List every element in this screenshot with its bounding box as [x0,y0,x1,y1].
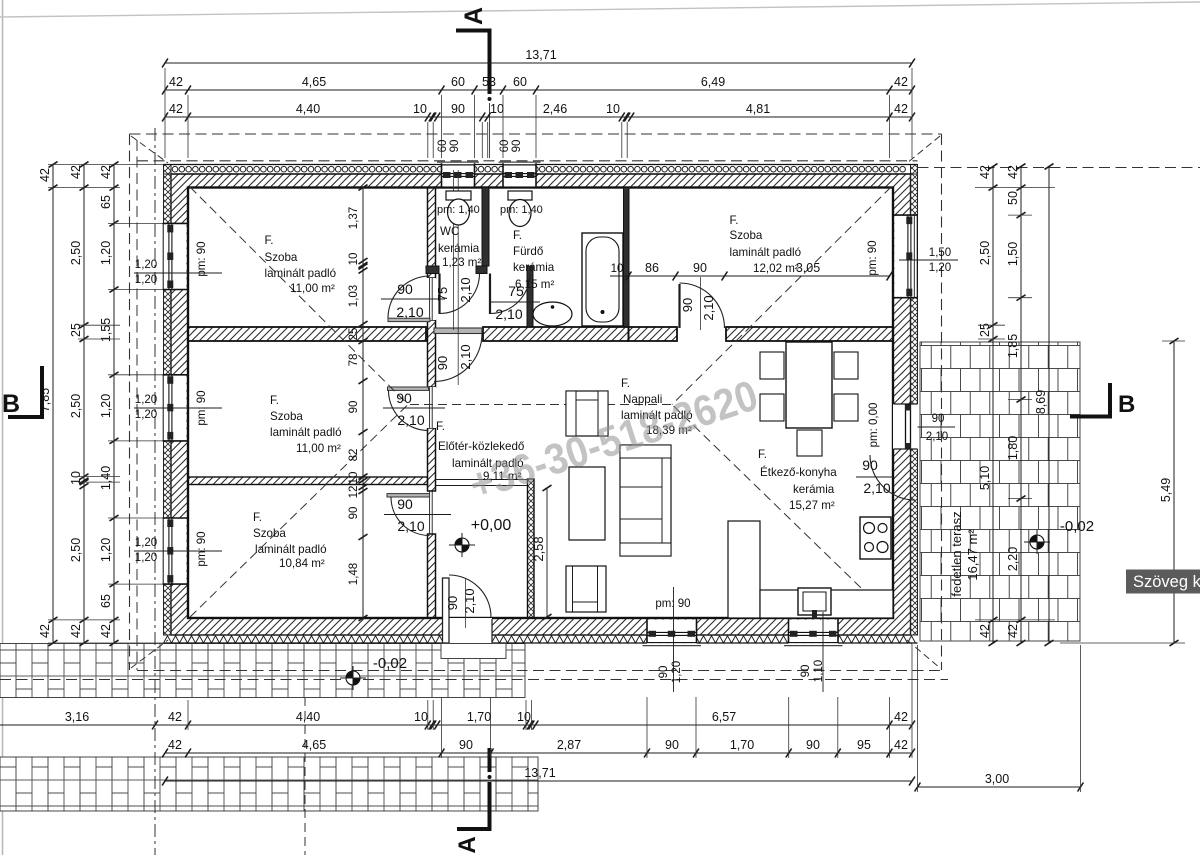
svg-text:95: 95 [857,738,871,752]
door szoba3 (in W1, y386.5-428) [426,387,436,428]
svg-text:90: 90 [449,140,461,153]
svg-text:2,10: 2,10 [495,306,522,322]
svg-text:2,50: 2,50 [978,241,992,265]
svg-text:kerámia: kerámia [438,242,480,255]
svg-text:60: 60 [499,140,511,153]
svg-text:pm: 90: pm: 90 [867,240,879,275]
svg-text:1,20: 1,20 [135,552,157,564]
threshold across corridor [436,479,527,481]
svg-text:Szoba: Szoba [730,229,763,242]
wall H2a: szoba1 south y=327..341 [188,327,426,341]
door szoba4 (in W1, y491-534) [429,491,431,534]
svg-text:6,57: 6,57 [712,710,736,724]
svg-text:2,10: 2,10 [396,304,423,320]
door szoba2 (in H2c, x677-726) [678,284,680,328]
svg-text:2,58: 2,58 [531,536,546,561]
svg-text:11,00 m²: 11,00 m² [290,282,335,295]
svg-text:90: 90 [396,390,412,406]
top extension lines [164,68,166,158]
svg-text:2,20: 2,20 [1006,547,1020,571]
wall H3: szoba3/szoba4 partition y=477..484.5 [188,477,428,485]
wall H2c: szoba2 south y=327..341 [629,327,678,341]
svg-text:Szoba: Szoba [270,410,303,423]
svg-text:4,65: 4,65 [302,75,326,89]
svg-text:1,20: 1,20 [135,394,157,406]
svg-text:10: 10 [413,102,427,116]
section marker A bottom [488,748,492,772]
svg-text:pm: 90: pm: 90 [655,598,690,610]
svg-text:A: A [454,836,481,853]
door bathroom (in H1, x487-527) [489,274,491,315]
svg-text:3,16: 3,16 [65,710,89,724]
corner hip stub BL [131,640,168,668]
svg-text:42: 42 [69,165,83,179]
svg-text:2,46: 2,46 [543,102,567,116]
svg-text:42: 42 [38,624,52,638]
svg-text:pm: 90: pm: 90 [196,390,208,425]
svg-text:F.: F. [265,234,274,247]
armchair (nappali) [566,391,608,436]
armchair 2 (nappali bottom) [566,566,606,612]
svg-text:Szöveg k: Szöveg k [1133,573,1200,591]
svg-text:2,10: 2,10 [458,277,473,302]
svg-text:F.: F. [436,420,445,433]
chairs around table [760,352,784,379]
svg-text:2,10: 2,10 [926,431,948,443]
svg-text:2,10: 2,10 [458,344,473,369]
left window sill line W3 [134,550,222,552]
svg-text:90: 90 [435,356,450,370]
svg-text:WC: WC [440,225,459,238]
left dim chain C [113,165,115,644]
door szoba1 (in W1, y278-320) [426,278,436,320]
svg-text:2,10: 2,10 [701,295,716,320]
svg-text:1,40: 1,40 [99,466,113,490]
svg-text:1,20: 1,20 [135,274,157,286]
right window sill labels [899,259,958,261]
window left W1 (szoba1) [163,223,187,289]
svg-text:13,71: 13,71 [524,766,555,780]
svg-text:1,50: 1,50 [1006,242,1020,266]
svg-text:pm: 0,00: pm: 0,00 [868,403,880,448]
left window sill line W1 [134,272,222,274]
svg-text:90: 90 [806,738,820,752]
window top T1 (WC) [442,163,475,186]
left extension lines [48,164,163,166]
wall H2b: bath south y=327..341 [483,327,629,341]
svg-text:3,00: 3,00 [985,772,1009,786]
svg-text:90: 90 [680,298,695,312]
szoba2 interior dim line [610,275,890,277]
svg-text:kerámia: kerámia [793,483,835,496]
svg-text:42: 42 [99,165,113,179]
WC toilet [446,191,471,200]
svg-text:15,27 m²: 15,27 m² [789,499,835,512]
svg-text:fedetlen terasz: fedetlen terasz [949,511,964,596]
window top T2 (bathroom) [503,163,536,186]
top dim row 3 [165,116,912,118]
svg-text:90: 90 [511,140,523,153]
right dim chain E [1020,167,1022,644]
insulation corner TR [911,165,918,175]
svg-text:42: 42 [169,102,183,116]
svg-text:3,05: 3,05 [796,261,820,275]
svg-text:25: 25 [348,328,360,341]
door WC (in H1, x439-476) [438,274,440,315]
svg-text:42: 42 [168,738,182,752]
svg-text:1,20: 1,20 [135,537,157,549]
right dim chain D [992,167,994,644]
svg-text:12,02 m²: 12,02 m² [753,262,799,275]
svg-text:42: 42 [978,624,992,638]
svg-text:10,84 m²: 10,84 m² [279,557,325,570]
insulation band right (crosshatch) [911,174,918,635]
wall V2: vestibule right x=527..533 [527,266,533,327]
svg-text:60: 60 [451,75,465,89]
terrace paving (right) [920,342,1080,641]
bottom dim terrace 3,00 [918,786,1081,788]
roof ridge dashed [410,404,672,406]
svg-text:+0,00: +0,00 [471,517,512,534]
window bottom B (kitchen) [789,620,839,644]
svg-text:90: 90 [800,665,812,678]
bottom extension lines [187,700,189,730]
svg-text:laminált padló: laminált padló [265,267,337,280]
level marker paving [346,671,360,685]
roof hip NE [672,187,891,405]
window left W2 (szoba3) [163,375,187,441]
svg-text:90: 90 [693,261,707,275]
svg-text:10: 10 [348,253,360,266]
bottom dim row 2 [165,752,912,754]
insulation band bottom (zigzag) [164,636,916,643]
insulation band top (dotted circles) [164,164,918,166]
bottom dim row 3 (13,71) [165,780,912,782]
svg-text:42: 42 [38,168,52,182]
svg-text:42: 42 [894,75,908,89]
svg-text:B: B [2,390,20,418]
roof overhang dashed rectangle [130,133,942,135]
svg-text:10: 10 [490,102,504,116]
terrace door sill labels [918,426,956,428]
svg-text:2,10: 2,10 [462,588,477,613]
svg-text:90: 90 [459,738,473,752]
roof hip SW [190,405,408,618]
svg-text:11,00 m²: 11,00 m² [296,442,341,455]
kitchen island counter [728,521,760,618]
wall WC right x=481..490 [482,188,489,267]
svg-text:1,23 m²: 1,23 m² [442,256,481,269]
stove [860,517,891,559]
insulation corner TL [164,165,172,175]
wall W2: corridor/nappali x=527..534 [528,479,535,618]
entrance door (bottom wall, x443-492) [443,618,492,644]
svg-text:F.: F. [270,394,279,407]
svg-text:1,20: 1,20 [99,241,113,265]
svg-text:F.: F. [758,448,767,461]
svg-text:laminált padló: laminált padló [270,426,342,439]
washbasin [533,302,572,326]
wall W1: rooms/hall separation x=427.5..435.5 [428,188,436,279]
paving strip below plan [0,644,525,698]
svg-text:60: 60 [437,140,449,153]
svg-text:53: 53 [482,75,496,89]
dining table [786,342,832,428]
interior dim chain [362,188,364,619]
svg-text:laminált padló: laminált padló [730,246,802,259]
svg-text:kerámia: kerámia [513,261,555,274]
svg-text:laminált padló: laminált padló [255,543,327,556]
grey text box bottom right [1126,570,1200,594]
svg-text:F.: F. [513,229,522,242]
roof hip NW [190,187,408,405]
svg-text:F.: F. [253,511,262,524]
svg-text:13,71: 13,71 [525,48,556,62]
svg-text:10: 10 [606,102,620,116]
svg-text:1,80: 1,80 [1006,436,1020,460]
svg-text:90: 90 [397,496,413,512]
svg-text:1,03: 1,03 [348,285,360,307]
svg-text:90: 90 [348,401,360,414]
svg-text:42: 42 [69,624,83,638]
exterior wall masonry ring [171,174,911,635]
svg-text:1,70: 1,70 [730,738,754,752]
bathroom toilet [508,191,532,200]
svg-text:90: 90 [932,413,945,425]
svg-text:16,47 m²: 16,47 m² [965,529,980,581]
svg-text:2,10: 2,10 [397,518,424,534]
svg-text:90: 90 [397,281,413,297]
hall width dim 2,58 [546,488,548,617]
svg-text:65: 65 [99,594,113,608]
svg-text:50: 50 [1006,191,1020,205]
bottom dim row 1 [0,724,912,726]
corner hip stub TR [907,136,940,163]
svg-text:6,49: 6,49 [701,75,725,89]
window right (szoba2) [894,215,917,298]
dashed extension line top right [918,167,1200,169]
svg-text:42: 42 [894,102,908,116]
svg-text:10: 10 [414,710,428,724]
corner hip stub BR [907,640,940,668]
svg-text:2,10: 2,10 [397,412,424,428]
svg-text:10: 10 [69,471,83,485]
roof hip SE [672,405,891,618]
svg-text:7,85: 7,85 [38,388,52,412]
bottom window A sill labels [673,587,675,692]
svg-text:90: 90 [862,457,878,473]
section marker B right [1070,415,1112,419]
svg-text:8,69: 8,69 [1034,390,1048,414]
wall H1: below WC/bath y=266..273.5 [426,266,439,274]
svg-text:12: 12 [348,486,360,499]
svg-text:42: 42 [1006,624,1020,638]
svg-text:4,65: 4,65 [302,738,326,752]
wall W5: bath/szoba2 x=623..628.5 [624,188,630,328]
svg-text:1,85: 1,85 [1006,334,1020,358]
bathtub [582,233,623,326]
svg-text:2,50: 2,50 [69,394,83,418]
svg-text:1,20: 1,20 [99,538,113,562]
svg-text:Szoba: Szoba [253,527,286,540]
svg-text:2,10: 2,10 [863,480,890,496]
svg-text:10: 10 [611,263,624,275]
svg-text:-0,02: -0,02 [1060,518,1094,535]
svg-text:Szoba: Szoba [265,251,298,264]
svg-text:42: 42 [99,624,113,638]
svg-text:82: 82 [348,449,360,462]
svg-text:-0,02: -0,02 [373,655,407,672]
svg-text:F.: F. [730,214,739,227]
svg-text:60: 60 [513,75,527,89]
top dim row 2 [165,89,912,91]
svg-text:2,50: 2,50 [69,241,83,265]
window left W3 (szoba4) [163,518,187,584]
svg-text:Étkező-konyha: Étkező-konyha [760,466,837,479]
svg-text:pm: 90: pm: 90 [196,531,208,566]
corner hip stub TL [131,136,168,163]
section marker A top [456,29,491,33]
level marker hall [455,538,469,552]
kitchen sink [798,588,831,615]
svg-text:10: 10 [348,472,360,485]
svg-text:65: 65 [99,195,113,209]
svg-text:pm: 1,40: pm: 1,40 [500,204,543,216]
roof overhang second bottom dashed line [0,679,948,681]
right dim chain F (8,69) [1048,167,1050,644]
svg-text:4,40: 4,40 [296,710,320,724]
svg-text:5,10: 5,10 [978,466,992,490]
svg-text:pm: 1,40: pm: 1,40 [437,204,480,216]
svg-text:B: B [1118,391,1135,418]
svg-text:42: 42 [168,710,182,724]
svg-text:42: 42 [894,710,908,724]
section marker B left [8,415,44,419]
top dim row 1 (13,71) [165,62,912,64]
svg-text:F.: F. [621,377,630,390]
svg-text:90: 90 [658,666,670,679]
svg-text:1,20: 1,20 [671,661,683,683]
svg-text:5,49: 5,49 [1159,478,1173,502]
svg-text:4,40: 4,40 [296,102,320,116]
bottom window B sill labels [822,612,824,692]
svg-text:42: 42 [1006,165,1020,179]
svg-text:Fürdő: Fürdő [513,245,543,258]
dashed line along top wall [137,160,918,162]
coffee table [569,467,605,540]
sofa [620,445,671,556]
svg-text:42: 42 [894,738,908,752]
inner wall face outline [188,188,893,619]
terrace dashed overhang x=941 already; small dashes left edge x=137 [136,140,138,670]
paving strip bottom of page [0,757,538,811]
scan artifact: page edge lines [2,0,4,855]
entrance doorstep [441,644,506,659]
svg-text:2,50: 2,50 [69,538,83,562]
svg-text:1,20: 1,20 [929,262,951,274]
svg-text:75: 75 [435,287,450,301]
svg-text:1,70: 1,70 [467,710,491,724]
svg-text:1,55: 1,55 [99,318,113,342]
left window sill line W2 [134,407,222,409]
level marker terrace [1030,535,1044,549]
svg-text:42: 42 [169,75,183,89]
svg-text:1,48: 1,48 [348,563,360,585]
svg-text:6,15 m²: 6,15 m² [515,278,554,291]
svg-text:1,20: 1,20 [135,259,157,271]
svg-text:1,20: 1,20 [135,409,157,421]
svg-text:2,87: 2,87 [557,738,581,752]
right extension lines [975,187,1055,189]
svg-text:90: 90 [451,102,465,116]
dashed line x=305 bottom [304,697,306,855]
left dim chain A (7,85) [52,165,54,644]
svg-text:pm: 90: pm: 90 [196,241,208,276]
terrace door kitchen (right wall, y404-449) [893,404,918,449]
left dim chain B [83,165,85,644]
svg-text:90: 90 [665,738,679,752]
svg-text:1,20: 1,20 [99,394,113,418]
window bottom A (nappali) [647,620,697,644]
svg-text:10: 10 [517,710,531,724]
svg-text:78: 78 [348,354,360,367]
svg-text:A: A [460,7,488,25]
svg-text:1,50: 1,50 [929,247,951,259]
door corridor-north (x434-482, y327-341) [434,328,482,334]
svg-text:42: 42 [978,165,992,179]
svg-text:4,81: 4,81 [746,102,770,116]
svg-text:90: 90 [445,596,460,610]
right dim line 5,49 [1173,341,1175,643]
insulation band left (crosshatch) [164,174,172,635]
svg-text:1,10: 1,10 [813,660,825,682]
svg-text:90: 90 [348,507,360,520]
property dash-dot line x=155 [154,128,156,855]
svg-text:86: 86 [645,261,659,275]
svg-text:1,37: 1,37 [348,207,360,229]
kitchen bottom counter [760,590,893,618]
